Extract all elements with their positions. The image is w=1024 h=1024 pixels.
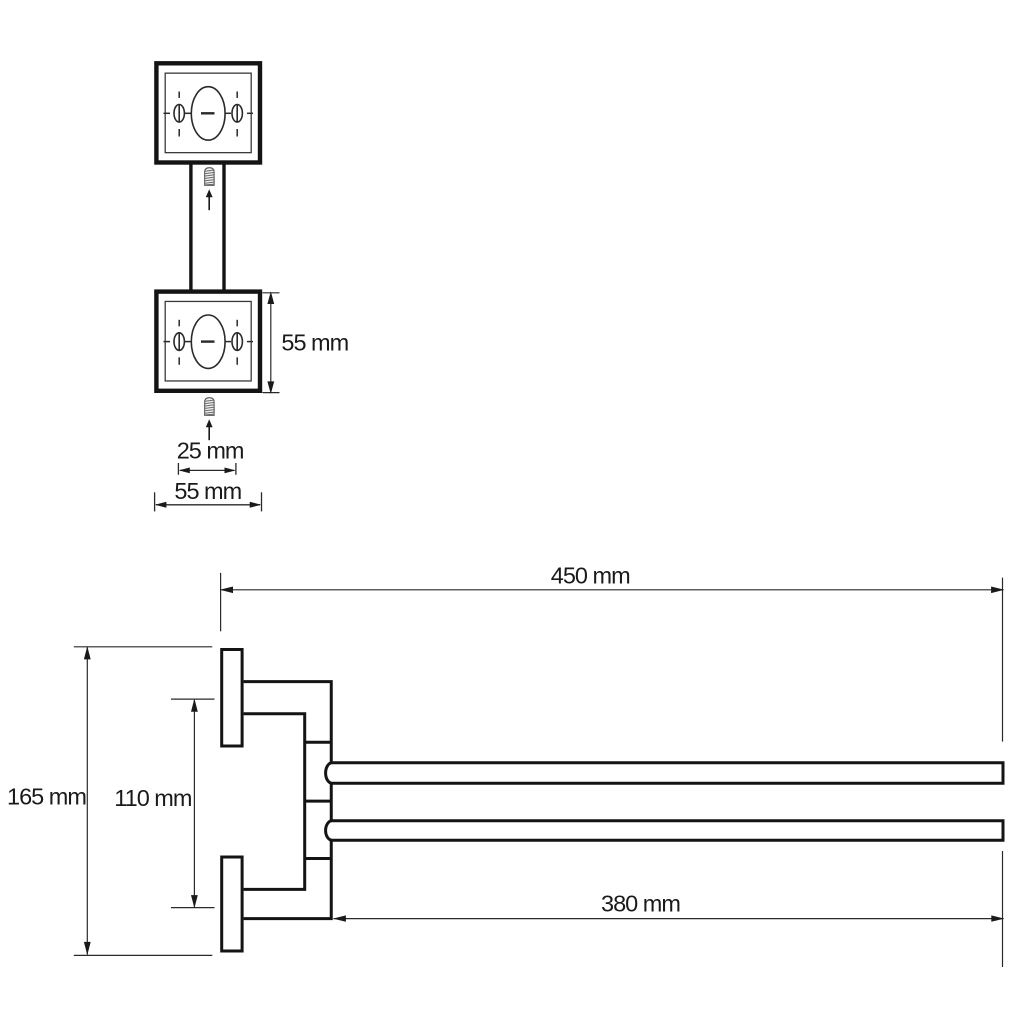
svg-text:110 mm: 110 mm bbox=[114, 785, 192, 811]
svg-text:380 mm: 380 mm bbox=[601, 891, 680, 917]
svg-text:450 mm: 450 mm bbox=[551, 563, 630, 589]
svg-text:165 mm: 165 mm bbox=[7, 784, 86, 810]
svg-text:25 mm: 25 mm bbox=[177, 438, 244, 464]
svg-text:55 mm: 55 mm bbox=[174, 478, 241, 504]
svg-text:55 mm: 55 mm bbox=[281, 330, 348, 356]
